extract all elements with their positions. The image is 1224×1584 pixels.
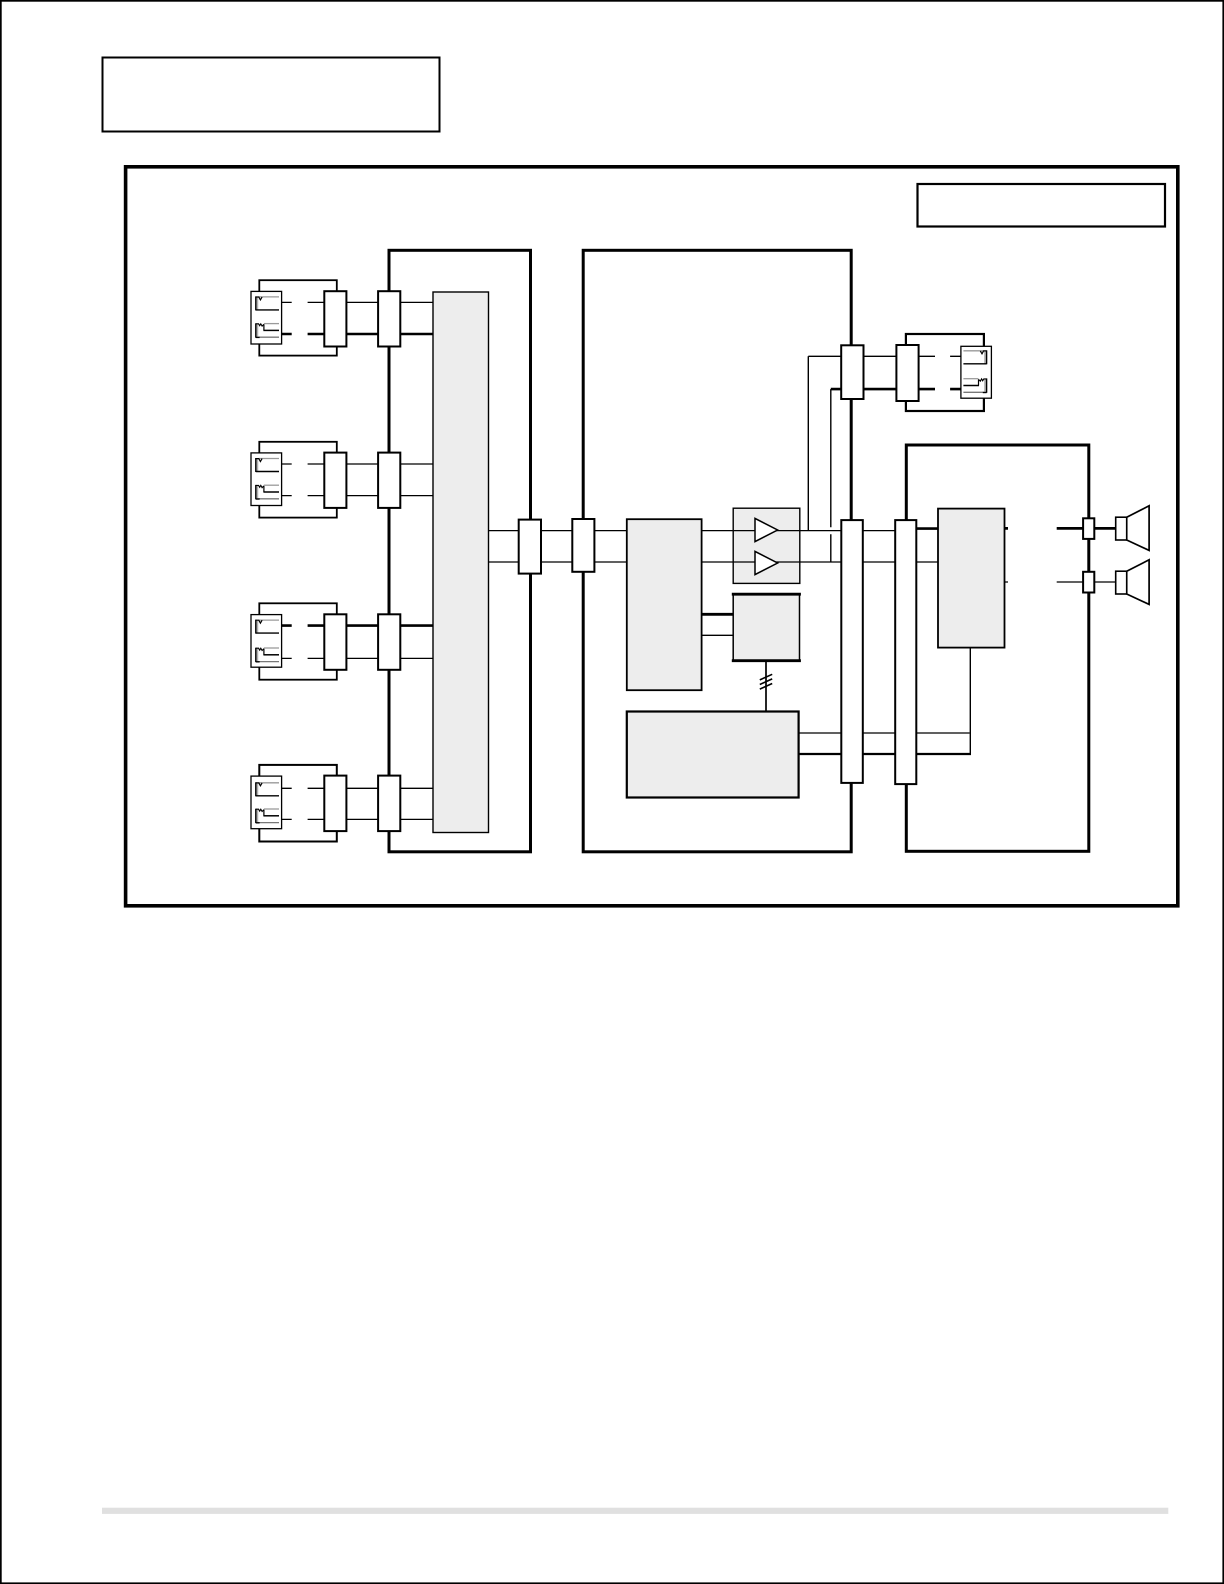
connector bar P2 (amp in) <box>572 519 594 572</box>
jack CN1-R <box>256 323 279 337</box>
jack CN5-L (mirrored) <box>963 350 986 364</box>
wire R ch <box>282 657 433 659</box>
speaker SP1 <box>1116 506 1149 551</box>
connector bar P3 (amp out, long) <box>841 520 863 783</box>
tap wire to rec out L <box>807 356 809 530</box>
jack CN2-L <box>256 458 279 472</box>
selector bus rect (gray) <box>433 292 489 833</box>
wire rec R <box>831 388 961 391</box>
connector bar P4 (output board in, long) <box>895 520 916 784</box>
jack box CN1 <box>251 291 282 344</box>
speaker terminal T2 <box>1083 572 1094 593</box>
jack CN4-L <box>256 782 279 796</box>
connector bar 3a <box>324 614 346 670</box>
control wire 1 <box>799 732 970 734</box>
jack CN3-L <box>256 620 279 634</box>
outer rect CN3 <box>259 603 337 679</box>
wire L ch <box>282 301 433 303</box>
wire R ch <box>282 333 433 336</box>
jack CN1-L <box>256 296 279 310</box>
title box (empty) <box>103 58 440 132</box>
wire audio L into output stage <box>916 527 938 530</box>
connector bar 5a <box>841 345 863 399</box>
jack CN4-R <box>256 809 279 823</box>
wire audio L main <box>489 530 895 532</box>
amp triangle R <box>755 551 778 574</box>
right block (output section) <box>906 445 1089 851</box>
outer rect CN2 <box>259 442 337 518</box>
jack CN5-R (mirrored) <box>963 378 986 392</box>
wire L ch <box>282 787 433 789</box>
jack box CN2 <box>251 453 282 506</box>
diagram frame <box>126 167 1178 906</box>
connector bar 4b <box>378 776 400 832</box>
footer rule <box>102 1508 1168 1514</box>
bus slash marks <box>760 674 772 689</box>
wire R ch <box>282 818 433 820</box>
speaker wire L <box>1005 527 1116 530</box>
outer rect CN1 <box>259 280 337 355</box>
label box top-right (empty) <box>918 184 1166 227</box>
gray box system control U3 <box>733 594 799 661</box>
connector bar 2b <box>378 453 400 508</box>
speaker wire R <box>1005 581 1116 583</box>
bus wire with slashes <box>765 661 767 712</box>
connector bar 5b <box>896 345 918 401</box>
amp triangle L <box>755 518 778 541</box>
wire L ch <box>282 624 433 627</box>
wire U1 to U3 upper <box>702 613 734 616</box>
wire L ch <box>282 463 433 465</box>
outer rect CN4 <box>259 765 337 842</box>
speaker terminal T1 <box>1083 518 1094 539</box>
jack box CN5 <box>961 346 992 398</box>
control wire 2 <box>799 753 971 755</box>
connector bar 1b <box>378 291 400 346</box>
left block (input selector) <box>389 250 531 852</box>
outer rect CN5 <box>906 334 984 411</box>
connector bar 1a <box>324 291 346 346</box>
control riser wire <box>969 648 971 755</box>
jack box CN4 <box>251 776 282 829</box>
connector bar 4a <box>324 776 346 832</box>
connector bar P1 (selector out) <box>519 520 541 574</box>
wire U1 to U3 lower <box>702 634 734 636</box>
connector bar 2a <box>324 453 346 508</box>
tap wire to rec out R (with crossover gap) <box>830 389 832 562</box>
gray box pre-amp U1 <box>627 519 702 690</box>
wire R ch <box>282 495 433 497</box>
connector bar 3b <box>378 614 400 670</box>
jack CN2-R <box>256 485 279 499</box>
jack box CN3 <box>251 615 282 668</box>
wire audio R main <box>489 561 938 563</box>
middle block (amplifier section) <box>583 250 851 852</box>
gray box output stage U5 <box>938 509 1005 648</box>
speaker SP2 <box>1116 560 1149 605</box>
jack CN3-R <box>256 648 279 662</box>
amp box U2 (gray) <box>733 508 800 583</box>
wire rec L <box>808 355 961 357</box>
gray box micom U4 <box>627 712 799 798</box>
